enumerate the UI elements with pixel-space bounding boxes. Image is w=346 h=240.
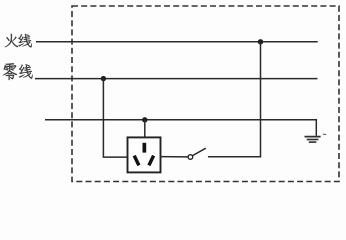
wire node B down and right to socket left pin <box>103 79 127 158</box>
socket X1 earth slot (top) <box>143 143 147 153</box>
label 火线 (live wire) <box>5 34 32 48</box>
wire node A down to switch <box>208 42 261 157</box>
wire node C down to socket top pin <box>144 120 146 138</box>
stray mark near ground <box>323 133 326 135</box>
wire L1 live (火线) <box>36 41 318 43</box>
switch S1 pivot circle <box>188 155 193 160</box>
switch S1 blade (open) <box>193 148 206 155</box>
label 零线 (neutral wire) <box>3 63 33 80</box>
wire L2 neutral (零线) <box>35 78 318 80</box>
socket X1 left slot <box>134 156 139 166</box>
ground <box>305 137 321 143</box>
node C (earth tap junction dot) <box>142 117 147 122</box>
socket X1 right slot <box>149 156 154 166</box>
wire L3 earth <box>45 120 316 136</box>
socket X1 (three-pin outlet) body <box>128 137 161 172</box>
node B (neutral tap junction dot) <box>101 76 106 81</box>
wire socket right pin to switch S1 <box>161 156 189 158</box>
dashed enclosure box <box>72 6 339 182</box>
node A (live tap junction dot) <box>258 39 263 44</box>
